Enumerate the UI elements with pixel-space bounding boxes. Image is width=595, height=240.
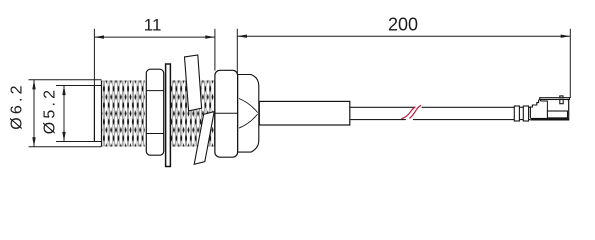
cable break mark left (red) bbox=[401, 107, 415, 119]
dimension dia5.2: extension line bottom (continues as part step line) bbox=[56, 141, 102, 143]
dimension 11: right arrow bbox=[205, 35, 215, 38]
dimension 200: extension line left bbox=[236, 29, 238, 75]
exposed thread between washer and hex body bbox=[171, 81, 215, 147]
rear crimp barrel H bbox=[259, 101, 350, 125]
U.FL bottom bar bbox=[530, 118, 569, 121]
dimension 200: dimension line bbox=[237, 35, 570, 37]
dimension 200: right arrow bbox=[561, 35, 571, 38]
dimension dia5.2: extension line top (continues as part step line) bbox=[56, 85, 102, 87]
dimension 200: extension line right bbox=[569, 29, 571, 98]
coax cable lower line bbox=[350, 119, 530, 121]
U.FL body left block with steps bbox=[530, 100, 538, 118]
dimension 11: extension line right bbox=[214, 29, 216, 71]
coax cable upper line bbox=[350, 106, 530, 108]
dimension dia6.2: dimension line bbox=[33, 80, 35, 147]
dimension 200: left arrow bbox=[237, 35, 247, 38]
U.FL plate left lip bbox=[539, 100, 541, 101]
crimp ring 2 bbox=[523, 106, 528, 121]
U.FL under-plate step bbox=[540, 101, 547, 111]
dimension dia5.2: bottom arrow bbox=[62, 132, 65, 142]
U.FL top nub bbox=[560, 96, 563, 98]
dimension dia6.2: top arrow bbox=[32, 80, 35, 90]
threaded barrel (SMA thread) bbox=[102, 81, 145, 147]
crimp ring 1 bbox=[514, 106, 519, 121]
connector front face bbox=[93, 86, 95, 142]
spring lock washer lower half F2 bbox=[194, 112, 214, 165]
dimension dia5.2: dimension line bbox=[63, 86, 65, 142]
U.FL plate right lip bbox=[568, 100, 569, 102]
hex jam nut C bbox=[146, 69, 163, 155]
U.FL top plate bbox=[540, 98, 570, 100]
flat washer D bbox=[166, 64, 171, 167]
dimension dia6.2: bottom arrow bbox=[32, 137, 35, 147]
dimension 11: dimension line bbox=[94, 36, 214, 38]
spring lock washer upper half F1 bbox=[185, 55, 202, 111]
U.FL right wall bbox=[568, 102, 569, 118]
svg-text:Ø5.2: Ø5.2 bbox=[42, 87, 59, 135]
svg-text:11: 11 bbox=[144, 16, 162, 35]
hex body G front face bbox=[215, 70, 238, 157]
hex body G side facet column bbox=[238, 75, 259, 153]
dimension dia6.2: extension line bottom bbox=[29, 146, 102, 148]
dimension 11: left arrow bbox=[94, 35, 104, 38]
dimension dia6.2: extension line top bbox=[29, 79, 102, 81]
cable break mark right (red) bbox=[409, 105, 421, 118]
dimension 11: extension line left bbox=[93, 29, 95, 86]
dimension dia5.2: top arrow bbox=[62, 86, 65, 96]
svg-text:200: 200 bbox=[388, 15, 418, 35]
U.FL inner box bbox=[547, 111, 567, 118]
U.FL hanging slot bbox=[560, 100, 563, 104]
svg-text:Ø6.2: Ø6.2 bbox=[9, 82, 26, 130]
